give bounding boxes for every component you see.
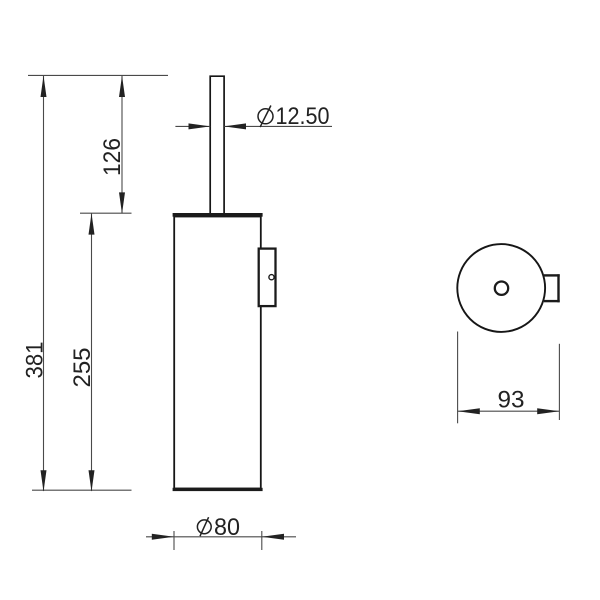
- extension tick Ø80 right: [261, 531, 263, 550]
- top view center hole: [495, 282, 508, 295]
- canister base (thick bar): [173, 488, 263, 491]
- top view outer circle: [457, 244, 545, 332]
- svg-text:93: 93: [498, 387, 525, 414]
- arrow 93 left (points left): [458, 408, 480, 414]
- arrow Ø80 right (outside, points left): [262, 534, 284, 540]
- brush handle rod: [210, 76, 224, 214]
- svg-text:381: 381: [21, 342, 48, 379]
- extension tick Ø80 left: [173, 531, 175, 550]
- top view bracket top edge: [544, 274, 560, 276]
- arrow 93 right (points right): [537, 408, 559, 414]
- arrow 126 top: [119, 76, 125, 97]
- arrow 255 top: [89, 213, 95, 234]
- extension line top (at rod top level): [28, 74, 168, 76]
- dimension Ø80 line: [146, 536, 296, 538]
- svg-text:80: 80: [214, 514, 240, 541]
- top view bracket bottom edge: [544, 300, 560, 302]
- dimension line 126: [121, 76, 123, 213]
- arrow 381 top: [41, 76, 47, 97]
- diameter symbol for 12.50: [258, 106, 273, 128]
- arrow Ø80 left (outside, points right): [152, 534, 174, 540]
- dimension line 255: [91, 213, 93, 491]
- arrow 255 bottom: [89, 470, 95, 491]
- canister lid (thick bar): [173, 213, 263, 217]
- top view bracket right edge: [557, 274, 559, 302]
- dimension line 381: [43, 76, 45, 491]
- extension line 93 right: [558, 344, 560, 420]
- bracket screw hole: [269, 275, 274, 280]
- svg-text:12.50: 12.50: [276, 103, 330, 130]
- svg-text:255: 255: [69, 348, 96, 388]
- diameter symbol for 80: [197, 517, 211, 536]
- canister body: [174, 217, 261, 489]
- extension line bottom (at base level): [32, 489, 132, 491]
- arrow 381 bottom: [41, 470, 47, 491]
- extension line at lid top level: [80, 212, 132, 214]
- arrow Ø12.50 right (points left at rod): [224, 123, 246, 129]
- arrow 126 bottom: [119, 192, 125, 213]
- dimension Ø12.50 leader line right: [224, 125, 332, 127]
- arrow Ø12.50 left (points right at rod): [189, 123, 211, 129]
- svg-text:126: 126: [99, 138, 126, 176]
- extension line 93 left: [457, 332, 459, 424]
- dimension line 93: [458, 410, 560, 412]
- dimension Ø12.50 leader line left: [175, 125, 210, 127]
- wall bracket (front view): [259, 249, 276, 307]
